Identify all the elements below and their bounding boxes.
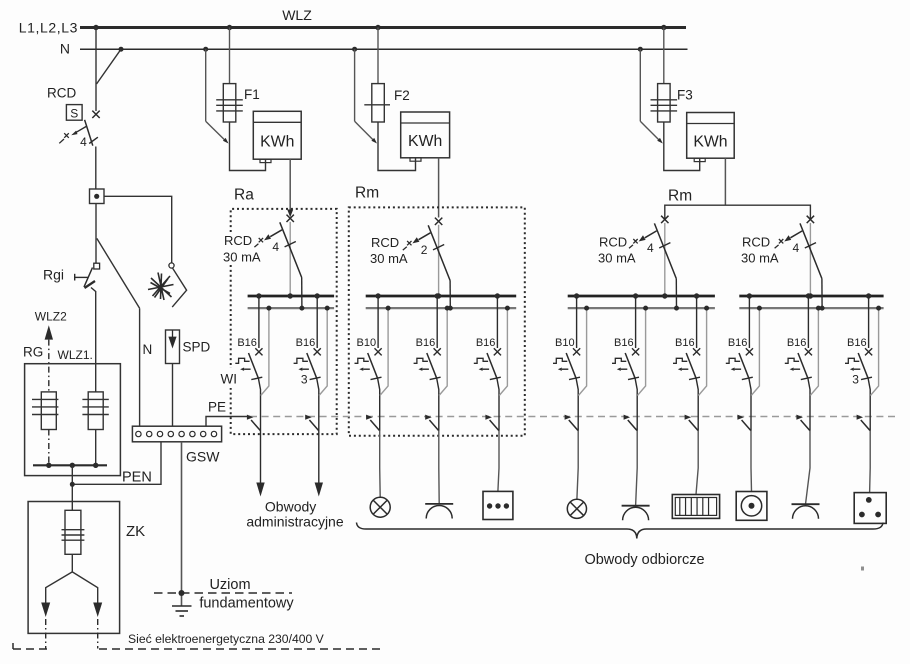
svg-text:WLZ2: WLZ2: [35, 310, 67, 324]
wire meter F3 output to right Rm tee: [724, 158, 726, 205]
busbar L group 4: [739, 295, 883, 298]
svg-text:4: 4: [647, 241, 654, 255]
label SPD: [183, 340, 211, 355]
wire RCD to junction box: [95, 147, 97, 190]
label 30 mA: [598, 251, 636, 266]
RG internal bus: [33, 464, 107, 466]
wire WLZ2 fuse to RG bus: [48, 430, 50, 466]
wire companion N: [380, 308, 388, 395]
foundation earth dashed line: [154, 592, 292, 594]
label WI: [221, 372, 238, 387]
wire fuse to meter F1: [230, 122, 266, 171]
svg-text:4: 4: [272, 240, 279, 254]
wire to cooker load: [750, 431, 753, 492]
svg-text:Ra: Ra: [234, 187, 254, 204]
breaker B10: [355, 296, 382, 431]
brace obwody odbiorcze: [357, 523, 884, 539]
label RCD (main switch): [47, 86, 76, 101]
svg-text:4: 4: [793, 241, 800, 255]
breaker B16: [726, 296, 753, 431]
label poles: [272, 240, 279, 254]
SPD disconnect detour: [172, 268, 186, 307]
node breaker N tap: [584, 306, 589, 311]
label B16: [728, 337, 748, 349]
wire right Rm tee: [665, 205, 811, 219]
node RG bus mid: [70, 463, 75, 468]
wire companion N: [698, 308, 706, 395]
wire L1,L2,L3 bus WLZ: [80, 26, 686, 29]
RCD 30 mA unit: [775, 216, 823, 308]
fuse F3: [651, 84, 678, 122]
label Uziom: [209, 577, 250, 593]
wire companion N: [751, 308, 759, 395]
node breaker L tap: [633, 293, 638, 298]
node N-bus tap for main RCD: [119, 47, 124, 52]
arrow supply right: [93, 603, 102, 649]
cabinet ZK box: [28, 502, 120, 634]
label F1: [244, 87, 260, 102]
svg-text:B16: B16: [296, 337, 316, 349]
node RCD N drop: [674, 306, 679, 311]
svg-text:Uziom: Uziom: [209, 577, 250, 593]
svg-text:RCD: RCD: [47, 86, 76, 101]
circuit arrow administracyjne 1: [256, 431, 264, 497]
label poles: [793, 241, 800, 255]
node breaker N tap: [505, 306, 510, 311]
busbar N group 2: [366, 307, 517, 309]
svg-text:WI: WI: [221, 372, 238, 387]
wire to 3-phase socket load: [869, 431, 872, 493]
wire split right: [72, 572, 97, 603]
node earth junction: [179, 590, 185, 596]
svg-text:Rgi: Rgi: [43, 267, 64, 283]
label Obwody administracyjne: [246, 499, 343, 530]
spark gap scribble: [148, 273, 174, 301]
svg-text:SPD: SPD: [183, 340, 211, 355]
node RCD N drop: [820, 306, 825, 311]
svg-text:Rm: Rm: [668, 187, 692, 204]
node breaker N tap: [445, 306, 450, 311]
wire companion N: [578, 308, 586, 395]
wire companion N: [319, 308, 327, 395]
node breaker N tap: [266, 306, 271, 311]
svg-text:B16: B16: [416, 337, 436, 349]
svg-text:RCD: RCD: [371, 235, 399, 250]
label poles: [421, 243, 428, 257]
node RCD L drop: [436, 293, 441, 298]
label RCD: [371, 235, 399, 250]
label 30 mA: [223, 250, 261, 265]
heater load (hatched box): [672, 495, 719, 519]
label GSW: [186, 449, 220, 465]
breaker B16: [474, 296, 501, 431]
busbar L group 2: [366, 295, 517, 298]
node N-bus tap F3: [638, 47, 643, 52]
RCD 30 mA unit: [629, 216, 677, 308]
node breaker N tap: [816, 306, 821, 311]
socket load 2: [622, 506, 650, 521]
PE tap arrow: [685, 415, 699, 431]
junction box load (3 dots): [483, 491, 513, 519]
arrow supply left: [41, 603, 50, 649]
node L-bus tap F2: [375, 25, 380, 30]
wire companion N: [637, 308, 645, 395]
fuse WLZ2 in RG: [32, 392, 58, 430]
node N-bus tap F2: [352, 47, 357, 52]
wire SPD to GSW: [172, 364, 174, 427]
wire companion N: [810, 308, 818, 395]
wire to socket 1: [438, 431, 440, 504]
cabinet RG box: [25, 364, 121, 476]
label RCD: [224, 233, 252, 248]
svg-text:N: N: [60, 41, 70, 57]
label 30 mA: [741, 251, 779, 266]
wire main drop from L bus to RCD S: [95, 28, 97, 112]
3-phase socket load: [854, 493, 886, 524]
RCD 30 mA unit: [254, 215, 302, 309]
svg-text:B10: B10: [555, 337, 575, 349]
svg-text:Rm: Rm: [355, 185, 379, 202]
wire companion N: [870, 308, 878, 395]
label B16: [847, 337, 867, 349]
main RCD terminal x: [92, 111, 99, 118]
main earthing bar GSW: [132, 426, 221, 442]
label RCD: [742, 235, 770, 250]
label PEN: [122, 470, 152, 486]
label F3: [677, 88, 693, 103]
node RCD L drop: [288, 293, 293, 298]
fuse in ZK: [62, 510, 85, 554]
wire neutral drop F3: [639, 49, 641, 121]
lamp load 2: [567, 499, 586, 518]
breaker B16: [235, 296, 262, 431]
svg-text:KWh: KWh: [693, 133, 727, 150]
node RG bus left: [46, 463, 51, 468]
svg-text:B16: B16: [728, 337, 748, 349]
svg-text:B16: B16: [847, 337, 867, 349]
wire companion N: [499, 308, 507, 395]
fuse F2: [364, 84, 390, 122]
svg-text:ZK: ZK: [126, 523, 145, 540]
wire RG to ZK (PEN): [71, 465, 73, 510]
wire meter F1 output to Ra: [287, 159, 293, 217]
busbar L group 3: [568, 295, 715, 298]
node L-bus tap F3: [661, 25, 666, 30]
wire N bus: [80, 48, 688, 50]
node RCD N drop: [448, 306, 453, 311]
node L-bus tap F1: [227, 25, 232, 30]
breaker B16: [785, 296, 812, 431]
node breaker N tap: [876, 306, 881, 311]
svg-text:3: 3: [301, 373, 308, 387]
label B16: [296, 337, 316, 349]
node RCD L drop: [662, 293, 667, 298]
svg-text:B16: B16: [237, 337, 257, 349]
svg-text:WLZ: WLZ: [282, 7, 312, 23]
wire fuse to meter F3: [664, 122, 700, 171]
label WLZ2: [35, 310, 67, 324]
SPD branch terminal circle: [169, 263, 174, 268]
svg-text:F3: F3: [677, 88, 693, 103]
svg-text:WLZ1.: WLZ1.: [58, 348, 93, 362]
label L1,L2,L3: [19, 20, 78, 36]
wire fuse to meter F2: [378, 122, 416, 171]
breaker B16: [845, 296, 872, 431]
label 4 (poles): [80, 135, 87, 149]
svg-text:N: N: [143, 342, 153, 357]
svg-text:RCD: RCD: [599, 235, 627, 250]
label WLZ1: [58, 348, 93, 362]
label B16: [416, 337, 436, 349]
node breaker L tap: [435, 293, 440, 298]
wire split left: [46, 572, 73, 603]
svg-text:PEN: PEN: [122, 470, 152, 486]
wire neutral diagonal into meter F3: [640, 121, 663, 143]
label N (conductor): [143, 342, 153, 357]
node RCD N drop: [299, 306, 304, 311]
svg-text:B16: B16: [614, 337, 634, 349]
svg-text:30 mA: 30 mA: [223, 250, 261, 265]
wire N diagonal join to main drop: [97, 49, 122, 84]
label N: [60, 41, 70, 57]
label RG: [23, 345, 43, 360]
svg-text:fundamentowy: fundamentowy: [199, 596, 294, 612]
wire to lamp 2: [577, 431, 578, 500]
label ZK: [126, 523, 145, 540]
node breaker L tap: [806, 293, 811, 298]
boundary dashed line right segment: [99, 648, 383, 650]
main RCD 4-pole tick: [89, 137, 98, 143]
wire Rgi to RG box: [95, 291, 97, 392]
svg-text:PE: PE: [208, 400, 226, 415]
busbar N group 3: [568, 307, 715, 309]
label B10: [555, 337, 575, 349]
node breaker N tap: [643, 306, 648, 311]
wire N tap diagonal to N conductor: [97, 238, 140, 308]
label RCD: [599, 235, 627, 250]
wire to socket 2: [636, 431, 638, 506]
svg-text:RG: RG: [23, 345, 43, 360]
breaker B16: [612, 296, 639, 431]
label 3 (poles): [852, 373, 859, 387]
wire to junction box load: [498, 431, 499, 492]
PE tap arrow: [247, 415, 261, 431]
main RCD switch blade: [85, 120, 93, 146]
label fundamentowy: [199, 596, 294, 612]
fuse F1: [216, 84, 243, 122]
boundary dashed line left segment: [13, 643, 47, 649]
wire to lamp 1: [379, 431, 382, 498]
lamp load 1: [370, 497, 390, 517]
label Siec elektroenergetyczna: [128, 632, 325, 646]
svg-text:4: 4: [80, 135, 87, 149]
svg-text:RCD: RCD: [742, 235, 770, 250]
label Rm (right): [668, 187, 692, 204]
wire N conductor down to GSW: [139, 308, 141, 426]
svg-text:KWh: KWh: [260, 133, 294, 150]
node breaker L tap: [495, 293, 500, 298]
wire to socket 3: [806, 431, 811, 505]
label WLZ: [282, 7, 312, 23]
node L-bus tap for main RCD: [93, 25, 98, 30]
busbar N group 1: [248, 307, 335, 309]
wire meter F2 output to Rm: [438, 158, 440, 218]
wire phase drop F3: [663, 28, 665, 84]
label Ra: [234, 187, 254, 204]
node breaker L tap: [315, 293, 320, 298]
arrow WLZ2 outgoing feeder: [45, 325, 53, 392]
enclosure Ra dotted box: [231, 209, 337, 434]
svg-text:Obwody odbiorcze: Obwody odbiorcze: [584, 552, 704, 568]
svg-text:administracyjne: administracyjne: [246, 514, 343, 530]
fuse WLZ1 in RG: [82, 392, 108, 430]
wire phase drop F1: [229, 28, 231, 84]
meter KWh (F3): [687, 113, 735, 162]
svg-text:3: 3: [852, 373, 859, 387]
enclosure Rm dotted box: [349, 207, 525, 435]
PE tap arrow: [796, 415, 810, 431]
label B16: [614, 337, 634, 349]
svg-text:L1,L2,L3: L1,L2,L3: [19, 20, 78, 36]
PE tap arrow: [624, 415, 638, 431]
node PEN junction: [70, 482, 75, 487]
svg-text:F1: F1: [244, 87, 260, 102]
svg-text:B10: B10: [357, 337, 377, 349]
node N-bus tap F1: [203, 47, 208, 52]
breaker B10: [553, 296, 580, 431]
socket load 3: [792, 504, 820, 519]
PE tap arrow: [425, 415, 439, 431]
node breaker L tap: [375, 293, 380, 298]
wire junction box to SPD branch corner: [104, 196, 172, 262]
label PE: [208, 400, 226, 415]
label poles: [647, 241, 654, 255]
mark speck artifact: [861, 567, 864, 571]
breaker B16: [673, 296, 700, 431]
busbar N group 4: [739, 307, 883, 309]
svg-text:KWh: KWh: [408, 133, 442, 150]
wire neutral drop F1: [205, 49, 207, 121]
cooker load (circle in box): [736, 492, 767, 521]
label 3 (poles): [301, 373, 308, 387]
wire junction box down to Rgi: [95, 204, 97, 264]
svg-text:B16: B16: [476, 337, 496, 349]
busbar L group 1: [248, 295, 335, 298]
wire GSW to foundation earth: [181, 442, 183, 606]
svg-text:F2: F2: [394, 88, 410, 103]
node breaker L tap: [747, 293, 752, 298]
PE tap arrow: [857, 415, 871, 431]
label Rm (middle): [355, 185, 379, 202]
PE tap arrow: [485, 415, 499, 431]
node breaker N tap: [325, 306, 330, 311]
wire to heater load: [696, 431, 698, 495]
svg-text:30 mA: 30 mA: [370, 251, 408, 266]
label Rgi: [43, 267, 64, 283]
junction box node: [90, 189, 105, 204]
svg-text:GSW: GSW: [186, 449, 220, 465]
wire companion N: [439, 308, 447, 395]
wire neutral drop F2: [354, 49, 356, 121]
svg-text:Sieć elektroenergetyczna 230/4: Sieć elektroenergetyczna 230/400 V: [128, 632, 325, 646]
RCD 30 mA unit: [403, 218, 451, 309]
node breaker L tap: [694, 293, 699, 298]
node breaker N tap: [704, 306, 709, 311]
label Obwody odbiorcze: [584, 552, 704, 568]
label F2: [394, 88, 410, 103]
svg-text:RCD: RCD: [224, 233, 252, 248]
label 30 mA: [370, 251, 408, 266]
label B16: [787, 337, 807, 349]
breaker B16: [294, 296, 321, 431]
node breaker L tap: [866, 293, 871, 298]
meter KWh (F2): [401, 112, 450, 161]
label B16: [675, 337, 695, 349]
node breaker L tap: [256, 293, 261, 298]
ground symbol: [172, 606, 192, 616]
label B10: [357, 337, 377, 349]
switch Rgi: [75, 263, 100, 291]
wire phase drop F2: [377, 28, 379, 84]
wire WLZ1 fuse to RG bus: [95, 430, 97, 466]
wire companion N: [261, 308, 269, 395]
label B16: [237, 337, 257, 349]
main RCD trip arrow: [59, 126, 87, 143]
socket load 1: [425, 504, 453, 519]
label B16: [476, 337, 496, 349]
PE tap arrow: [737, 415, 751, 431]
svg-text:30 mA: 30 mA: [598, 251, 636, 266]
wire PE from GSW to PE distribution: [206, 417, 250, 427]
PE tap arrow: [565, 415, 579, 431]
main RCD S selective box: [66, 105, 82, 121]
svg-text:S: S: [70, 107, 78, 121]
node RG bus right: [93, 463, 98, 468]
wire ZK fuse to split: [71, 554, 73, 572]
circuit arrow administracyjne 2: [315, 431, 323, 497]
surge arrester SPD: [166, 330, 180, 364]
svg-text:B16: B16: [787, 337, 807, 349]
svg-text:Obwody: Obwody: [265, 499, 316, 515]
meter KWh (F1): [253, 111, 301, 162]
node breaker N tap: [757, 306, 762, 311]
wire PE distribution dashed: [250, 416, 896, 418]
wire neutral diagonal into meter F1: [206, 121, 229, 143]
breaker B16: [414, 296, 441, 431]
node breaker N tap: [386, 306, 391, 311]
svg-text:30 mA: 30 mA: [741, 251, 779, 266]
wire PEN link to GSW: [72, 442, 161, 485]
node RCD L drop: [808, 293, 813, 298]
wire neutral diagonal into meter F2: [355, 121, 377, 143]
node breaker L tap: [574, 293, 579, 298]
svg-text:2: 2: [421, 243, 428, 257]
PE tap arrow: [366, 415, 380, 431]
svg-text:B16: B16: [675, 337, 695, 349]
PE tap arrow: [305, 415, 319, 431]
